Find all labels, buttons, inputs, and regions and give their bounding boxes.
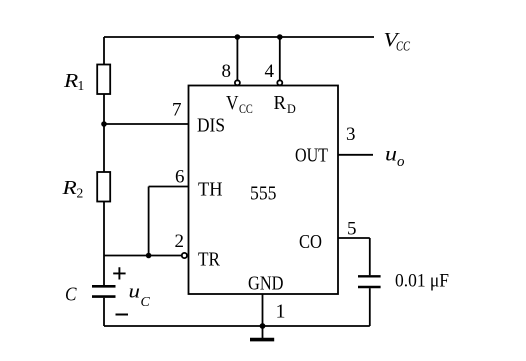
svg-text:TH: TH	[198, 179, 223, 201]
node junction top rail pin8	[235, 34, 241, 40]
svg-text:TR: TR	[198, 249, 220, 271]
wire DIS pin7	[104, 123, 189, 125]
wire 0.01uF capacitor to bottom rail	[369, 288, 371, 326]
wire top rail Vcc	[104, 36, 374, 38]
svg-text:6: 6	[175, 167, 185, 188]
svg-text:GND: GND	[248, 273, 284, 295]
wire R2 down to capacitor C	[103, 202, 105, 286]
svg-text:CC: CC	[239, 102, 253, 116]
svg-text:o: o	[397, 154, 405, 170]
svg-text:CO: CO	[299, 231, 322, 253]
node B junction TH-TR	[146, 253, 152, 259]
svg-text:2: 2	[77, 186, 84, 201]
svg-text:R: R	[63, 70, 78, 92]
svg-text:0.01 μF: 0.01 μF	[395, 271, 449, 292]
wire TH vertical	[148, 187, 150, 256]
svg-text:u: u	[385, 144, 397, 166]
svg-text:OUT: OUT	[295, 145, 328, 167]
resistor R2	[97, 172, 110, 202]
wire ground stub	[262, 326, 264, 338]
wire CO down to capacitor	[369, 238, 371, 275]
node A junction DIS	[101, 121, 107, 127]
svg-text:DIS: DIS	[197, 115, 225, 137]
svg-text:2: 2	[175, 231, 185, 252]
node junction top rail pin4	[277, 34, 283, 40]
svg-text:1: 1	[78, 78, 85, 93]
wire pin1 GND drop	[262, 294, 264, 326]
svg-text:R: R	[61, 177, 76, 199]
svg-text:R: R	[274, 92, 287, 114]
pin 2 open circle TR	[182, 253, 187, 258]
svg-text:1: 1	[276, 301, 286, 323]
wire TR pin2 horizontal	[104, 255, 182, 257]
node junction pin1 bottom rail	[260, 323, 266, 329]
capacitor C bottom plate	[92, 295, 116, 298]
plus sign of capacitor C polarity	[113, 267, 125, 279]
op-amp U1 555 IC box	[189, 86, 339, 295]
wire R1 to R2	[103, 94, 105, 173]
svg-text:u: u	[129, 282, 141, 303]
wire left vertical top to R1	[103, 37, 105, 65]
wire OUT pin3	[338, 154, 373, 156]
svg-text:3: 3	[346, 124, 356, 145]
wire bottom rail	[104, 325, 370, 327]
svg-text:5: 5	[347, 219, 357, 240]
capacitor C top plate	[92, 285, 116, 288]
minus sign of capacitor C polarity	[116, 314, 129, 316]
svg-text:D: D	[287, 101, 296, 116]
ground symbol bar	[250, 338, 274, 342]
wire TH pin6 horizontal	[149, 186, 189, 188]
wire CO pin5	[338, 237, 370, 239]
svg-text:C: C	[141, 295, 151, 310]
svg-text:C: C	[65, 284, 77, 306]
capacitor 0.01uF bottom plate	[358, 286, 381, 288]
wire capacitor C to bottom rail	[103, 298, 105, 326]
pin 8 open circle	[235, 80, 240, 85]
wire pin4 drop	[279, 37, 281, 80]
resistor R1	[97, 65, 110, 95]
svg-text:8: 8	[222, 61, 232, 82]
pin 4 open circle	[277, 80, 282, 85]
svg-text:CC: CC	[396, 39, 411, 54]
svg-text:7: 7	[172, 100, 182, 121]
svg-text:555: 555	[250, 183, 277, 205]
svg-text:V: V	[226, 92, 239, 114]
capacitor 0.01uF top plate	[358, 275, 381, 277]
wire pin8 drop	[236, 37, 238, 80]
svg-text:4: 4	[265, 61, 275, 82]
